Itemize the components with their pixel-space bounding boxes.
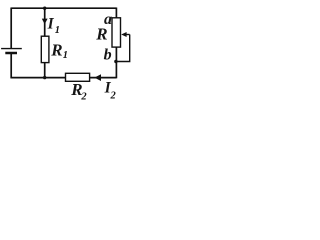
wire R1 branch upper — [44, 8, 46, 36]
current arrow I1 — [42, 19, 48, 25]
wire left upper — [10, 8, 12, 49]
svg-text:I: I — [47, 15, 55, 32]
wiper arrow — [121, 32, 130, 37]
node wiper-b junction — [114, 60, 117, 63]
wire top — [11, 7, 116, 9]
svg-text:1: 1 — [63, 50, 68, 61]
svg-text:2: 2 — [110, 91, 117, 102]
resistor R1 — [41, 36, 49, 62]
wire rheostat bottom stub — [115, 47, 117, 78]
wire bottom left segment — [11, 77, 66, 79]
svg-text:1: 1 — [55, 25, 60, 36]
rheostat R — [112, 18, 121, 47]
svg-text:R: R — [95, 24, 107, 43]
battery cell — [1, 49, 22, 53]
wire rheostat top stub — [115, 8, 117, 19]
current arrow I2 — [94, 74, 101, 81]
svg-text:R: R — [50, 41, 62, 60]
wire R1 branch lower — [44, 63, 46, 78]
svg-text:2: 2 — [80, 91, 87, 102]
svg-text:b: b — [104, 46, 112, 63]
node R1-bottom — [43, 76, 46, 79]
wire left lower — [10, 53, 12, 78]
wire wiper drop — [116, 35, 130, 62]
resistor R2 — [66, 73, 90, 81]
wire bottom right segment — [90, 77, 117, 79]
node R1-top — [43, 7, 46, 10]
